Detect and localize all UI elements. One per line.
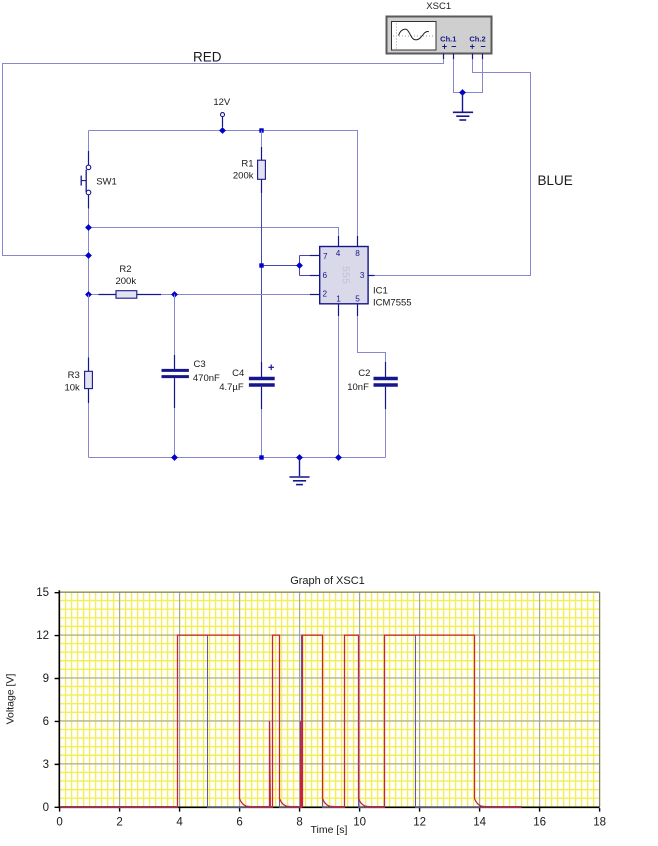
graph minor grid (yellow): [60, 592, 600, 807]
wire pin 5 to C2: [358, 304, 386, 378]
junction pins 7-6 bracket: [296, 262, 303, 269]
svg-text:Voltage [V]: Voltage [V]: [5, 674, 17, 725]
graph axis title Time: [311, 824, 348, 836]
svg-text:12V: 12V: [213, 97, 231, 108]
capacitor C3 470nF: [162, 359, 221, 384]
oscilloscope XSC1: [387, 17, 492, 60]
resistor R2 200k: [89, 264, 162, 298]
svg-text:+: +: [470, 42, 475, 52]
capacitor C2 10nF: [347, 368, 398, 393]
svg-text:4: 4: [176, 817, 183, 829]
wire pin 1 to ground rail: [338, 304, 340, 458]
wire C4 top: [261, 362, 263, 378]
svg-text:R1: R1: [241, 158, 253, 169]
resistor R3 10k: [64, 358, 92, 404]
junction ground on rail: [296, 454, 303, 461]
svg-text:R3: R3: [68, 370, 80, 381]
wire R1 bottom / C4 / pins 7-6 net: [262, 193, 320, 362]
svg-text:8: 8: [355, 249, 360, 258]
wire reset net to pin 4: [89, 228, 339, 247]
graph title: [290, 575, 365, 587]
svg-text:6: 6: [323, 271, 328, 280]
svg-text:4: 4: [336, 249, 341, 258]
svg-text:555: 555: [339, 266, 350, 284]
label IC1 ICM7555: [373, 286, 412, 309]
junction pin1 on rail: [335, 454, 342, 461]
wire pin 3 stub: [368, 275, 374, 277]
graph axis title Voltage: [5, 674, 17, 725]
svg-text:10k: 10k: [64, 382, 80, 393]
wire rail to SW1: [88, 131, 90, 152]
graph major grid (gray): [60, 592, 600, 807]
svg-text:5: 5: [355, 295, 360, 304]
label XSC1: [426, 1, 451, 12]
svg-text:10nF: 10nF: [347, 382, 369, 393]
svg-text:200k: 200k: [233, 170, 254, 181]
wire SW1 to lower-left node: [88, 209, 90, 295]
junction scope ground node: [459, 89, 466, 96]
junction C3 on rail: [171, 454, 178, 461]
power 12V terminal: [213, 97, 231, 131]
junction RED net on switch column: [85, 252, 92, 259]
ground (main): [289, 458, 309, 485]
svg-text:RED: RED: [193, 50, 222, 65]
graph x-axis labels: [56, 817, 606, 829]
wire BLUE net (555 pin3 to scope Ch.2+): [375, 59, 531, 276]
svg-text:9: 9: [43, 673, 49, 685]
svg-text:0: 0: [56, 817, 62, 829]
wire C3 top: [174, 295, 176, 370]
svg-text:C2: C2: [358, 368, 370, 379]
wire Vcc rail: [89, 131, 358, 247]
junction reset net on switch column: [85, 224, 92, 231]
svg-text:10: 10: [353, 817, 366, 829]
wire scope Ch.1- / Ch.2- to ground: [454, 59, 483, 93]
svg-text:−: −: [480, 42, 485, 52]
IC IC1 ICM7555 (555 timer): [320, 247, 368, 304]
svg-text:1: 1: [336, 295, 341, 304]
graph y-axis labels: [36, 587, 49, 814]
svg-text:12: 12: [36, 630, 49, 642]
graph trace blue (Ch.2): [60, 635, 521, 807]
wire C2 bottom: [385, 387, 387, 458]
svg-text:Time [s]: Time [s]: [311, 824, 348, 836]
junction R1 bottom column: [259, 263, 263, 267]
svg-text:200k: 200k: [115, 276, 136, 287]
junction R2 left on switch column: [85, 291, 92, 298]
label BLUE: [538, 173, 573, 188]
wire R3 to ground rail: [88, 403, 90, 458]
svg-text:−: −: [451, 42, 456, 52]
svg-text:C3: C3: [194, 359, 206, 370]
svg-text:XSC1: XSC1: [426, 1, 451, 12]
svg-text:15: 15: [36, 587, 49, 599]
svg-text:3: 3: [360, 271, 365, 280]
svg-text:+: +: [442, 42, 447, 52]
ground (scope): [453, 93, 473, 121]
wire RED net (scope Ch.1+ to switch node): [3, 59, 444, 256]
svg-text:6: 6: [43, 716, 49, 728]
svg-text:C4: C4: [232, 368, 244, 379]
label RED: [193, 50, 222, 65]
svg-text:4.7µF: 4.7µF: [219, 382, 244, 393]
wire C4 bottom: [261, 387, 263, 458]
svg-text:3: 3: [43, 759, 49, 771]
capacitor C4 4.7uF polarized: [219, 365, 274, 393]
resistor R1 200k: [233, 131, 266, 194]
wire ground rail: [89, 457, 386, 459]
junction C3 top on R2 net: [171, 291, 178, 298]
label SW1: [96, 176, 117, 187]
junction R1 top on rail: [259, 128, 263, 132]
switch SW1 (push button): [81, 151, 91, 209]
svg-text:12: 12: [413, 817, 426, 829]
svg-text:8: 8: [296, 817, 302, 829]
svg-text:BLUE: BLUE: [538, 173, 573, 188]
svg-text:470nF: 470nF: [193, 373, 220, 384]
svg-text:7: 7: [323, 252, 328, 261]
svg-text:2: 2: [116, 817, 122, 829]
graph top and right border: [60, 592, 600, 807]
junction 12V on rail: [219, 127, 226, 134]
svg-text:2: 2: [323, 289, 328, 298]
svg-text:Graph of XSC1: Graph of XSC1: [290, 575, 365, 587]
svg-text:18: 18: [593, 817, 606, 829]
svg-text:14: 14: [473, 817, 486, 829]
graph axes (black): [55, 590, 600, 811]
wire C3 bottom: [174, 378, 176, 457]
svg-text:6: 6: [236, 817, 242, 829]
wire node to R3: [88, 295, 90, 358]
svg-text:16: 16: [533, 817, 546, 829]
svg-text:ICM7555: ICM7555: [373, 297, 412, 308]
svg-text:R2: R2: [119, 264, 131, 275]
junction C4 on rail: [259, 455, 263, 459]
svg-text:IC1: IC1: [373, 286, 388, 297]
svg-text:0: 0: [43, 802, 49, 814]
graph trace red (Ch.1): [60, 635, 521, 807]
svg-text:SW1: SW1: [96, 176, 117, 187]
wire R2 to pin 2: [161, 294, 320, 296]
